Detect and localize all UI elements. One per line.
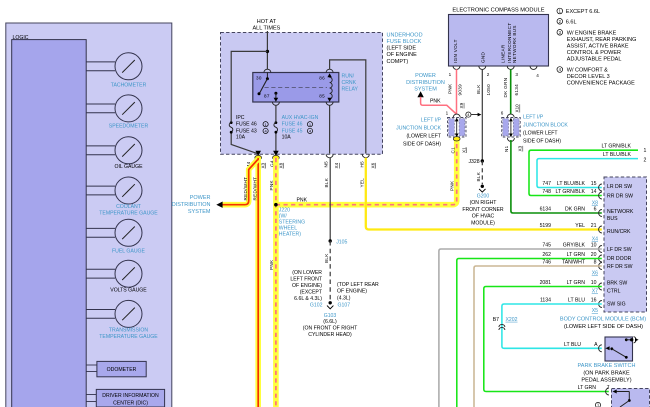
svg-text:IPC: IPC: [236, 115, 245, 121]
svg-text:B7: B7: [493, 317, 499, 323]
svg-text:TRANSMISSION: TRANSMISSION: [109, 328, 148, 334]
wire relay 85 to N5 exit: [329, 105, 331, 153]
svg-text:TEMPERATURE GAUGE: TEMPERATURE GAUGE: [99, 334, 158, 340]
svg-text:LR DR SW: LR DR SW: [607, 184, 632, 190]
svg-text:PEDAL ASSEMBLY): PEDAL ASSEMBLY): [581, 378, 631, 384]
svg-text:1050: 1050: [486, 84, 491, 96]
svg-text:6.6L & 4.3L): 6.6L & 4.3L): [294, 296, 322, 302]
wire PNK compass pin 1: [456, 69, 458, 114]
wire branch to IPC fuse: [231, 51, 267, 121]
svg-text:CYLINDER HEAD): CYLINDER HEAD): [308, 332, 352, 338]
svg-text:BLK: BLK: [476, 84, 481, 94]
svg-text:OF ENGINE): OF ENGINE): [337, 289, 367, 295]
park brake switch caption: [578, 363, 636, 383]
svg-text:LT GRN/BLK: LT GRN/BLK: [555, 189, 585, 195]
svg-text:262: 262: [542, 252, 551, 258]
svg-text:(6.6L): (6.6L): [323, 319, 337, 325]
svg-text:1: 1: [449, 72, 452, 77]
svg-text:20: 20: [591, 252, 597, 258]
svg-text:HEATER): HEATER): [279, 231, 301, 237]
svg-text:HOT AT: HOT AT: [257, 19, 277, 25]
svg-text:G103: G103: [324, 313, 337, 319]
svg-text:10A: 10A: [236, 135, 246, 141]
svg-text:10: 10: [591, 243, 597, 249]
BCM pin 16 SW SIG: [540, 298, 626, 315]
svg-text:1: 1: [644, 148, 647, 154]
G200 note: [462, 194, 504, 227]
BCM pin 20 DR DOOR: [542, 252, 631, 262]
BCM pin 15 LR DR SW: [542, 181, 632, 191]
compass pin 3 connector: [507, 66, 514, 69]
svg-text:CONVENIENCE PACKAGE: CONVENIENCE PACKAGE: [567, 81, 635, 87]
svg-text:86: 86: [319, 75, 325, 80]
svg-text:POWER: POWER: [190, 195, 211, 201]
svg-text:15: 15: [591, 181, 597, 187]
svg-text:NETWORK: NETWORK: [607, 209, 634, 215]
svg-text:LT BLU/BLK: LT BLU/BLK: [603, 152, 632, 158]
svg-text:BLK: BLK: [476, 171, 481, 181]
svg-text:87: 87: [264, 94, 270, 99]
junction node on feed: [266, 50, 269, 53]
svg-text:G107: G107: [338, 303, 351, 309]
svg-text:10: 10: [591, 280, 597, 286]
svg-text:BUS: BUS: [607, 216, 618, 222]
svg-text:BRK SW: BRK SW: [607, 280, 627, 286]
svg-text:DISTRIBUTION: DISTRIBUTION: [406, 80, 445, 86]
ground G102/G107: [327, 301, 333, 309]
wire BLK compass pin 2: [481, 69, 483, 161]
svg-text:LF DR SW: LF DR SW: [607, 247, 632, 253]
wire LT GRN pin 10 to park brake pedal switch: [484, 287, 609, 392]
svg-text:OF HVAC: OF HVAC: [472, 214, 495, 220]
svg-text:EXCEPT 6.6L: EXCEPT 6.6L: [566, 9, 600, 15]
volts gauge: [86, 260, 147, 293]
svg-text:ODOMETER: ODOMETER: [107, 367, 137, 373]
svg-text:6: 6: [501, 111, 504, 116]
svg-text:(TOP LEFT REAR: (TOP LEFT REAR: [337, 282, 379, 288]
svg-text:YEL: YEL: [359, 178, 364, 188]
J220 note: [279, 207, 305, 237]
splice J220: [274, 203, 278, 207]
svg-text:X3: X3: [261, 162, 266, 168]
svg-text:X7: X7: [592, 289, 598, 295]
relay pin 85: [319, 94, 333, 106]
compass pin 4 connector: [530, 66, 539, 78]
svg-text:LEFT I/P: LEFT I/P: [523, 115, 544, 121]
junction block 1 bottom pin: [450, 137, 466, 154]
arrow to power distribution system: [216, 202, 222, 208]
svg-text:TEMPERATURE GAUGE: TEMPERATURE GAUGE: [99, 211, 158, 217]
svg-text:X202: X202: [506, 317, 518, 323]
svg-text:CTRL: CTRL: [607, 288, 621, 294]
power distribution system label (top): [406, 73, 445, 93]
svg-text:W/ ENGINE BRAKE: W/ ENGINE BRAKE: [567, 30, 617, 36]
svg-text:NETWORK BUS: NETWORK BUS: [512, 25, 517, 63]
inline connector B7 X202: [493, 317, 518, 330]
wire RED/WHT branch to power distribution: [222, 160, 258, 205]
svg-text:(LEFT SIDE: (LEFT SIDE: [387, 46, 417, 52]
svg-text:W/ COMFORT &: W/ COMFORT &: [567, 68, 608, 74]
svg-text:SYSTEM: SYSTEM: [188, 209, 211, 215]
svg-text:PNK: PNK: [297, 198, 308, 204]
svg-text:(ON RIGHT: (ON RIGHT: [470, 200, 498, 206]
svg-text:RED/WHT: RED/WHT: [253, 177, 258, 201]
arrow up to power distribution: [417, 91, 423, 97]
wire PNK highlighted vertical: [273, 158, 279, 407]
svg-text:N5: N5: [324, 161, 329, 168]
ground G200: [479, 185, 485, 193]
junction block 2 label: [523, 115, 568, 145]
pin name LINEAR INTERCONNECT NETWORK BUS: [501, 23, 517, 63]
transmission temperature gauge: [86, 300, 158, 340]
wire LT BLU/BLK to pin 2: [537, 152, 647, 187]
svg-text:X4: X4: [334, 162, 339, 168]
svg-text:X5: X5: [592, 308, 598, 314]
svg-text:2: 2: [644, 158, 647, 164]
wire BLK from N5: [329, 158, 331, 241]
odometer: [86, 361, 146, 376]
wire PNK from power distribution: [421, 97, 457, 114]
fuel gauge: [86, 219, 145, 254]
svg-text:RUN/: RUN/: [342, 74, 355, 80]
svg-text:10A: 10A: [282, 135, 292, 141]
BCM pin 10 LF DR SW: [542, 243, 631, 253]
instrument cluster outer box: [6, 23, 172, 407]
footnote 4: [557, 67, 635, 87]
svg-text:RF DR SW: RF DR SW: [607, 264, 633, 270]
svg-text:(ON FRONT OF RIGHT: (ON FRONT OF RIGHT: [303, 326, 358, 332]
svg-text:2: 2: [487, 72, 490, 77]
svg-text:ADJUSTABLE PEDAL: ADJUSTABLE PEDAL: [567, 56, 622, 62]
svg-text:DR DOOR: DR DOOR: [607, 256, 632, 262]
BCM box: [604, 177, 647, 312]
wire DK GRN junction block 2 to BCM: [511, 140, 602, 213]
BCM caption: [560, 317, 646, 330]
splice J105: [329, 239, 332, 242]
svg-text:30: 30: [256, 75, 262, 80]
relay pin 87: [264, 92, 279, 106]
svg-text:1134: 1134: [540, 298, 551, 304]
svg-text:ELECTRONIC COMPASS MODULE: ELECTRONIC COMPASS MODULE: [452, 8, 544, 14]
svg-text:746: 746: [542, 260, 551, 266]
wire DK GRN compass pin 3: [510, 69, 512, 114]
coolant temperature gauge: [86, 177, 158, 217]
junction block 1 top pin: [446, 111, 461, 118]
svg-text:J328: J328: [468, 159, 479, 165]
svg-text:JUNCTION BLOCK: JUNCTION BLOCK: [396, 126, 441, 132]
splice J328: [468, 159, 484, 165]
svg-text:21: 21: [591, 223, 597, 229]
svg-text:VOLTS GAUGE: VOLTS GAUGE: [110, 288, 147, 294]
svg-text:BLK: BLK: [324, 177, 329, 187]
logic inner box: [12, 40, 87, 407]
junction block 1 label: [396, 118, 442, 148]
N5 exit connector: [324, 154, 340, 168]
svg-text:J105: J105: [336, 240, 347, 246]
svg-text:RR DR SW: RR DR SW: [607, 194, 633, 200]
svg-text:(LOWER LEFT: (LOWER LEFT: [523, 131, 558, 137]
svg-text:LINEAR: LINEAR: [501, 44, 506, 63]
wire LT GRN pin 20: [457, 259, 602, 407]
svg-text:X3: X3: [518, 145, 523, 151]
footnote 2: [557, 19, 577, 26]
svg-text:LEFT FRONT: LEFT FRONT: [290, 277, 322, 283]
BCM pin 21 RUN/CRK: [540, 223, 631, 243]
footnote 4 pointer at junction block 1: [466, 112, 482, 117]
G103 note: [303, 313, 358, 338]
junction block 2 bottom pin: [504, 138, 523, 152]
svg-text:X8: X8: [278, 162, 283, 168]
svg-text:FUSE 46: FUSE 46: [236, 122, 257, 128]
svg-text:A: A: [594, 342, 598, 348]
svg-text:H5: H5: [360, 161, 365, 168]
compass pin 2 connector: [479, 66, 486, 69]
driver information center (DIC): [86, 389, 164, 407]
svg-text:OF ENGINE: OF ENGINE: [387, 52, 418, 58]
wire LT GRN/BLK to pin 1: [529, 144, 647, 196]
svg-text:14: 14: [591, 189, 597, 195]
svg-text:UNDERHOOD: UNDERHOOD: [387, 32, 423, 38]
relay switch: [258, 73, 269, 96]
svg-text:LT BLU/BLK: LT BLU/BLK: [557, 181, 586, 187]
svg-text:TAN/WHT: TAN/WHT: [562, 260, 586, 266]
wire relay 86 loop to H5 exit: [330, 60, 366, 154]
svg-text:X10: X10: [515, 104, 520, 113]
wire IPC fuse to J4 exit: [231, 134, 258, 154]
svg-text:G200: G200: [477, 194, 490, 200]
svg-text:SYSTEM: SYSTEM: [414, 87, 437, 93]
wire TAN/WHT pin 8: [474, 266, 602, 407]
svg-text:LT GRN: LT GRN: [567, 280, 586, 286]
svg-text:IGN VOLT: IGN VOLT: [453, 39, 458, 63]
svg-text:LT GRN: LT GRN: [567, 252, 586, 258]
BCM pin 6 NETWORK BUS: [540, 207, 634, 223]
run/crnk relay U-box: [253, 73, 359, 103]
J4 exit connector: [246, 151, 266, 169]
svg-text:C1: C1: [450, 147, 455, 154]
compass module box: [449, 15, 549, 67]
svg-text:748: 748: [542, 189, 551, 195]
svg-text:6134: 6134: [514, 84, 519, 96]
svg-text:85: 85: [319, 94, 325, 99]
svg-text:TACHOMETER: TACHOMETER: [111, 83, 147, 89]
svg-text:CENTER (DIC): CENTER (DIC): [113, 401, 148, 407]
svg-text:DECOR LEVEL 3: DECOR LEVEL 3: [567, 74, 610, 80]
svg-text:FRONT CORNER: FRONT CORNER: [462, 207, 504, 213]
tachometer gauge: [86, 53, 146, 89]
AUX HVAC-IGN fuse: [274, 105, 319, 140]
svg-text:COMPT): COMPT): [387, 59, 409, 65]
speedometer gauge: [86, 95, 148, 130]
hot at all times label: [252, 19, 280, 32]
svg-text:(ON LOWER: (ON LOWER: [292, 270, 322, 276]
svg-text:BODY CONTROL MODULE (BCM): BODY CONTROL MODULE (BCM): [560, 317, 646, 323]
wire YEL from H5 to BCM RUN/CRK: [366, 158, 602, 230]
svg-text:9039: 9039: [457, 84, 462, 96]
svg-text:G102: G102: [310, 303, 323, 309]
junction block 2 top pin: [501, 111, 514, 118]
svg-text:OF ENGINE): OF ENGINE): [292, 283, 322, 289]
svg-text:3: 3: [515, 72, 518, 77]
svg-text:LEFT I/P: LEFT I/P: [421, 118, 442, 124]
svg-text:6.6L: 6.6L: [566, 19, 577, 25]
footnote 3: [557, 30, 636, 63]
svg-text:(LOWER LEFT SIDE OF DASH): (LOWER LEFT SIDE OF DASH): [564, 324, 643, 330]
BCM pin 8 RF DR SW: [542, 260, 632, 277]
G4 exit connector: [270, 151, 284, 169]
underhood fuse block label: [387, 32, 423, 64]
svg-text:PNK: PNK: [448, 83, 453, 94]
svg-text:6: 6: [594, 207, 597, 213]
svg-text:DISTRIBUTION: DISTRIBUTION: [172, 202, 211, 208]
svg-text:LT BLU: LT BLU: [564, 342, 581, 348]
svg-text:16: 16: [591, 298, 597, 304]
svg-text:CONTROL & POWER: CONTROL & POWER: [567, 50, 621, 56]
svg-text:DK GRN: DK GRN: [565, 207, 585, 213]
svg-text:SPEEDOMETER: SPEEDOMETER: [109, 124, 149, 130]
svg-text:COOLANT: COOLANT: [116, 204, 142, 210]
svg-text:JUNCTION BLOCK: JUNCTION BLOCK: [523, 123, 568, 129]
svg-text:GND: GND: [481, 51, 486, 63]
svg-text:LT BLU: LT BLU: [568, 298, 585, 304]
svg-text:FUSE 43: FUSE 43: [236, 128, 257, 134]
svg-text:OIL GAUGE: OIL GAUGE: [114, 164, 143, 170]
G107 note: [337, 282, 379, 308]
svg-text:X6: X6: [370, 162, 375, 168]
power distribution system label (left): [172, 195, 211, 215]
svg-text:YEL: YEL: [575, 223, 585, 229]
BCM pin 14 RR DR SW: [542, 189, 633, 207]
svg-text:FUSE 45: FUSE 45: [282, 128, 303, 134]
svg-text:BLK: BLK: [324, 253, 329, 263]
svg-text:4: 4: [536, 73, 539, 78]
svg-text:RELAY: RELAY: [342, 87, 359, 93]
svg-text:EXHAUST, REAR PARKING: EXHAUST, REAR PARKING: [567, 37, 637, 43]
relay dashed link: [265, 87, 328, 89]
svg-text:6134: 6134: [540, 207, 552, 213]
svg-text:(ON PARK BRAKE: (ON PARK BRAKE: [583, 370, 630, 376]
svg-text:LT GRN/BLK: LT GRN/BLK: [601, 144, 631, 150]
wire PNK highlighted horizontal to junction block: [276, 140, 457, 205]
svg-text:PNK: PNK: [430, 99, 441, 105]
footnote 1 marker at bottom switch: [595, 402, 600, 407]
G102 note: [290, 270, 322, 308]
svg-text:RED/WHT: RED/WHT: [243, 177, 248, 201]
underhood fuse block dashed box: [221, 33, 383, 155]
relay pin 30 connector: [264, 69, 271, 72]
svg-text:FUSE 46: FUSE 46: [282, 122, 303, 128]
svg-text:POWER: POWER: [415, 73, 436, 79]
wire RED/WHT main highlighted: [255, 158, 261, 407]
svg-text:SIDE OF DASH): SIDE OF DASH): [523, 139, 561, 145]
svg-text:DK GRN: DK GRN: [503, 78, 508, 98]
svg-text:N1: N1: [504, 145, 509, 152]
svg-text:ALL TIMES: ALL TIMES: [252, 26, 280, 32]
svg-text:1: 1: [446, 111, 449, 116]
relay coil: [327, 73, 332, 99]
svg-text:ASSIST, ACTIVE BRAKE: ASSIST, ACTIVE BRAKE: [567, 43, 629, 49]
wire AUX fuse to G4 exit: [275, 134, 277, 154]
svg-text:8: 8: [594, 260, 597, 266]
junction block 2 box: [502, 118, 521, 138]
svg-text:745: 745: [542, 243, 551, 249]
svg-text:PNK: PNK: [269, 179, 274, 190]
svg-text:X9: X9: [459, 102, 464, 108]
compass pin 1 connector: [453, 66, 460, 69]
svg-text:PNK: PNK: [450, 180, 455, 191]
footnote 1: [557, 8, 600, 15]
svg-text:MODULE): MODULE): [471, 220, 495, 226]
svg-text:PNK: PNK: [269, 259, 274, 270]
BCM pin 10 BRK SW CTRL: [540, 280, 628, 295]
svg-text:(LOWER LEFT: (LOWER LEFT: [406, 134, 441, 140]
oil gauge: [86, 137, 143, 170]
svg-text:FUEL GAUGE: FUEL GAUGE: [112, 249, 146, 255]
svg-text:SW SIG: SW SIG: [607, 302, 626, 308]
svg-text:GRY/BLK: GRY/BLK: [563, 243, 586, 249]
svg-text:(4.3L): (4.3L): [337, 295, 351, 301]
svg-text:RUN/CRK: RUN/CRK: [607, 229, 631, 235]
svg-text:2081: 2081: [540, 280, 552, 286]
svg-text:X1: X1: [461, 147, 466, 153]
H5 exit connector: [360, 154, 376, 168]
wire BLK dashed to G200: [481, 161, 483, 184]
feed wire from hot at all times: [266, 31, 268, 69]
svg-text:SIDE OF DASH): SIDE OF DASH): [403, 142, 441, 148]
svg-text:PARK BRAKE SWITCH: PARK BRAKE SWITCH: [578, 363, 636, 369]
svg-text:(EXCEPT: (EXCEPT: [300, 289, 323, 295]
IPC fuse: [229, 115, 268, 141]
svg-text:AUX HVAC-IGN: AUX HVAC-IGN: [282, 115, 319, 121]
bottom switch (dashed box): [606, 388, 650, 407]
wire LT BLU pin 16 to park brake switch: [502, 304, 602, 348]
relay pin 86 connector: [326, 69, 333, 72]
svg-text:DRIVER INFORMATION: DRIVER INFORMATION: [102, 393, 159, 399]
svg-text:747: 747: [542, 181, 551, 187]
svg-text:LT GRN: LT GRN: [578, 385, 597, 391]
junction block 1 box: [448, 118, 467, 138]
svg-text:5199: 5199: [540, 223, 552, 229]
svg-text:CRNK: CRNK: [342, 80, 357, 86]
wire BLK dashed to ground: [329, 241, 331, 301]
wire GRY/BLK pin 10: [439, 249, 602, 407]
svg-text:X6: X6: [592, 271, 598, 277]
svg-text:FUSE BLOCK: FUSE BLOCK: [387, 39, 422, 45]
